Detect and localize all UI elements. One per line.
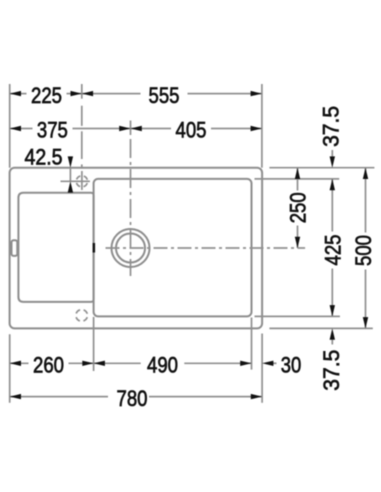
extension line right top xyxy=(261,84,263,168)
svg-text:405: 405 xyxy=(176,118,207,143)
arrows row2 xyxy=(10,126,21,131)
tick 375/405 xyxy=(130,121,132,136)
svg-text:500: 500 xyxy=(351,235,376,266)
svg-text:250: 250 xyxy=(285,192,310,223)
right extension bottom edge xyxy=(269,327,372,329)
svg-text:425: 425 xyxy=(321,235,346,266)
arrow 37.5 bottom xyxy=(330,328,335,339)
drain inner circle xyxy=(116,234,145,263)
right extension rim bottom xyxy=(255,315,340,317)
right extension top edge xyxy=(269,167,374,169)
overflow slot xyxy=(12,240,18,256)
arrows 42.5 xyxy=(68,156,73,167)
faucet cross vertical xyxy=(81,171,83,190)
faucet hole dashed circle xyxy=(76,176,87,187)
extension line left bottom xyxy=(9,334,11,403)
faucet centerline dash segment 1 xyxy=(81,106,83,126)
arrows col 425 xyxy=(330,179,335,190)
dim 42.5 line through span xyxy=(69,168,71,182)
arrows row1 xyxy=(10,91,21,96)
dim row2 line 405 xyxy=(131,128,172,130)
extension line rim right bottom xyxy=(251,318,253,370)
dim col 37.5 bottom tail xyxy=(331,340,333,345)
right extension rim top xyxy=(255,178,340,180)
faucet centerline dash segment 3 xyxy=(81,164,83,168)
bowl outline xyxy=(18,193,93,302)
svg-text:225: 225 xyxy=(31,83,62,108)
svg-text:37.5: 37.5 xyxy=(318,106,343,147)
dim row3 line 30 tail xyxy=(266,362,277,364)
svg-text:260: 260 xyxy=(33,353,64,378)
arrows row3 xyxy=(10,361,21,366)
svg-text:555: 555 xyxy=(149,83,180,108)
dim col 500 xyxy=(365,168,367,233)
extension line 260/490 xyxy=(93,317,95,371)
arrow 37.5 top xyxy=(330,156,335,167)
extension line outer right bottom xyxy=(261,334,263,403)
dim row4 line 780 xyxy=(10,396,108,398)
divider black mark xyxy=(93,243,96,253)
svg-text:37.5: 37.5 xyxy=(319,350,344,391)
dim row1 line 225 xyxy=(10,93,27,95)
dim col 425 xyxy=(331,179,333,232)
drain outer circle xyxy=(112,229,150,267)
arrows col 250 xyxy=(295,168,300,179)
svg-text:375: 375 xyxy=(37,118,68,143)
drain horizontal centerline xyxy=(106,247,306,249)
svg-text:30: 30 xyxy=(281,353,302,378)
arrows col 500 xyxy=(363,168,368,179)
dim col 250 xyxy=(297,168,299,191)
sink outer outline xyxy=(10,168,263,329)
drain vertical centerline xyxy=(130,139,132,276)
drainer rim inner outline xyxy=(94,179,252,317)
tick 225/555 xyxy=(81,84,83,99)
faucet cross horizontal xyxy=(61,180,90,182)
dim row1 line 555 xyxy=(82,93,141,95)
dim row3 line 490 xyxy=(94,362,141,364)
bottom optional hole dashed circle xyxy=(76,310,88,322)
svg-text:42.5: 42.5 xyxy=(25,144,63,169)
arrows row4 xyxy=(10,394,21,399)
svg-text:780: 780 xyxy=(117,386,148,411)
extension line left top xyxy=(9,84,11,168)
faucet centerline dash segment 2 xyxy=(81,131,83,159)
dim row3 line 260 xyxy=(10,362,29,364)
svg-text:490: 490 xyxy=(147,353,178,378)
dim row2 line 375 xyxy=(10,128,33,130)
dim col 37.5 top tail xyxy=(331,150,333,156)
